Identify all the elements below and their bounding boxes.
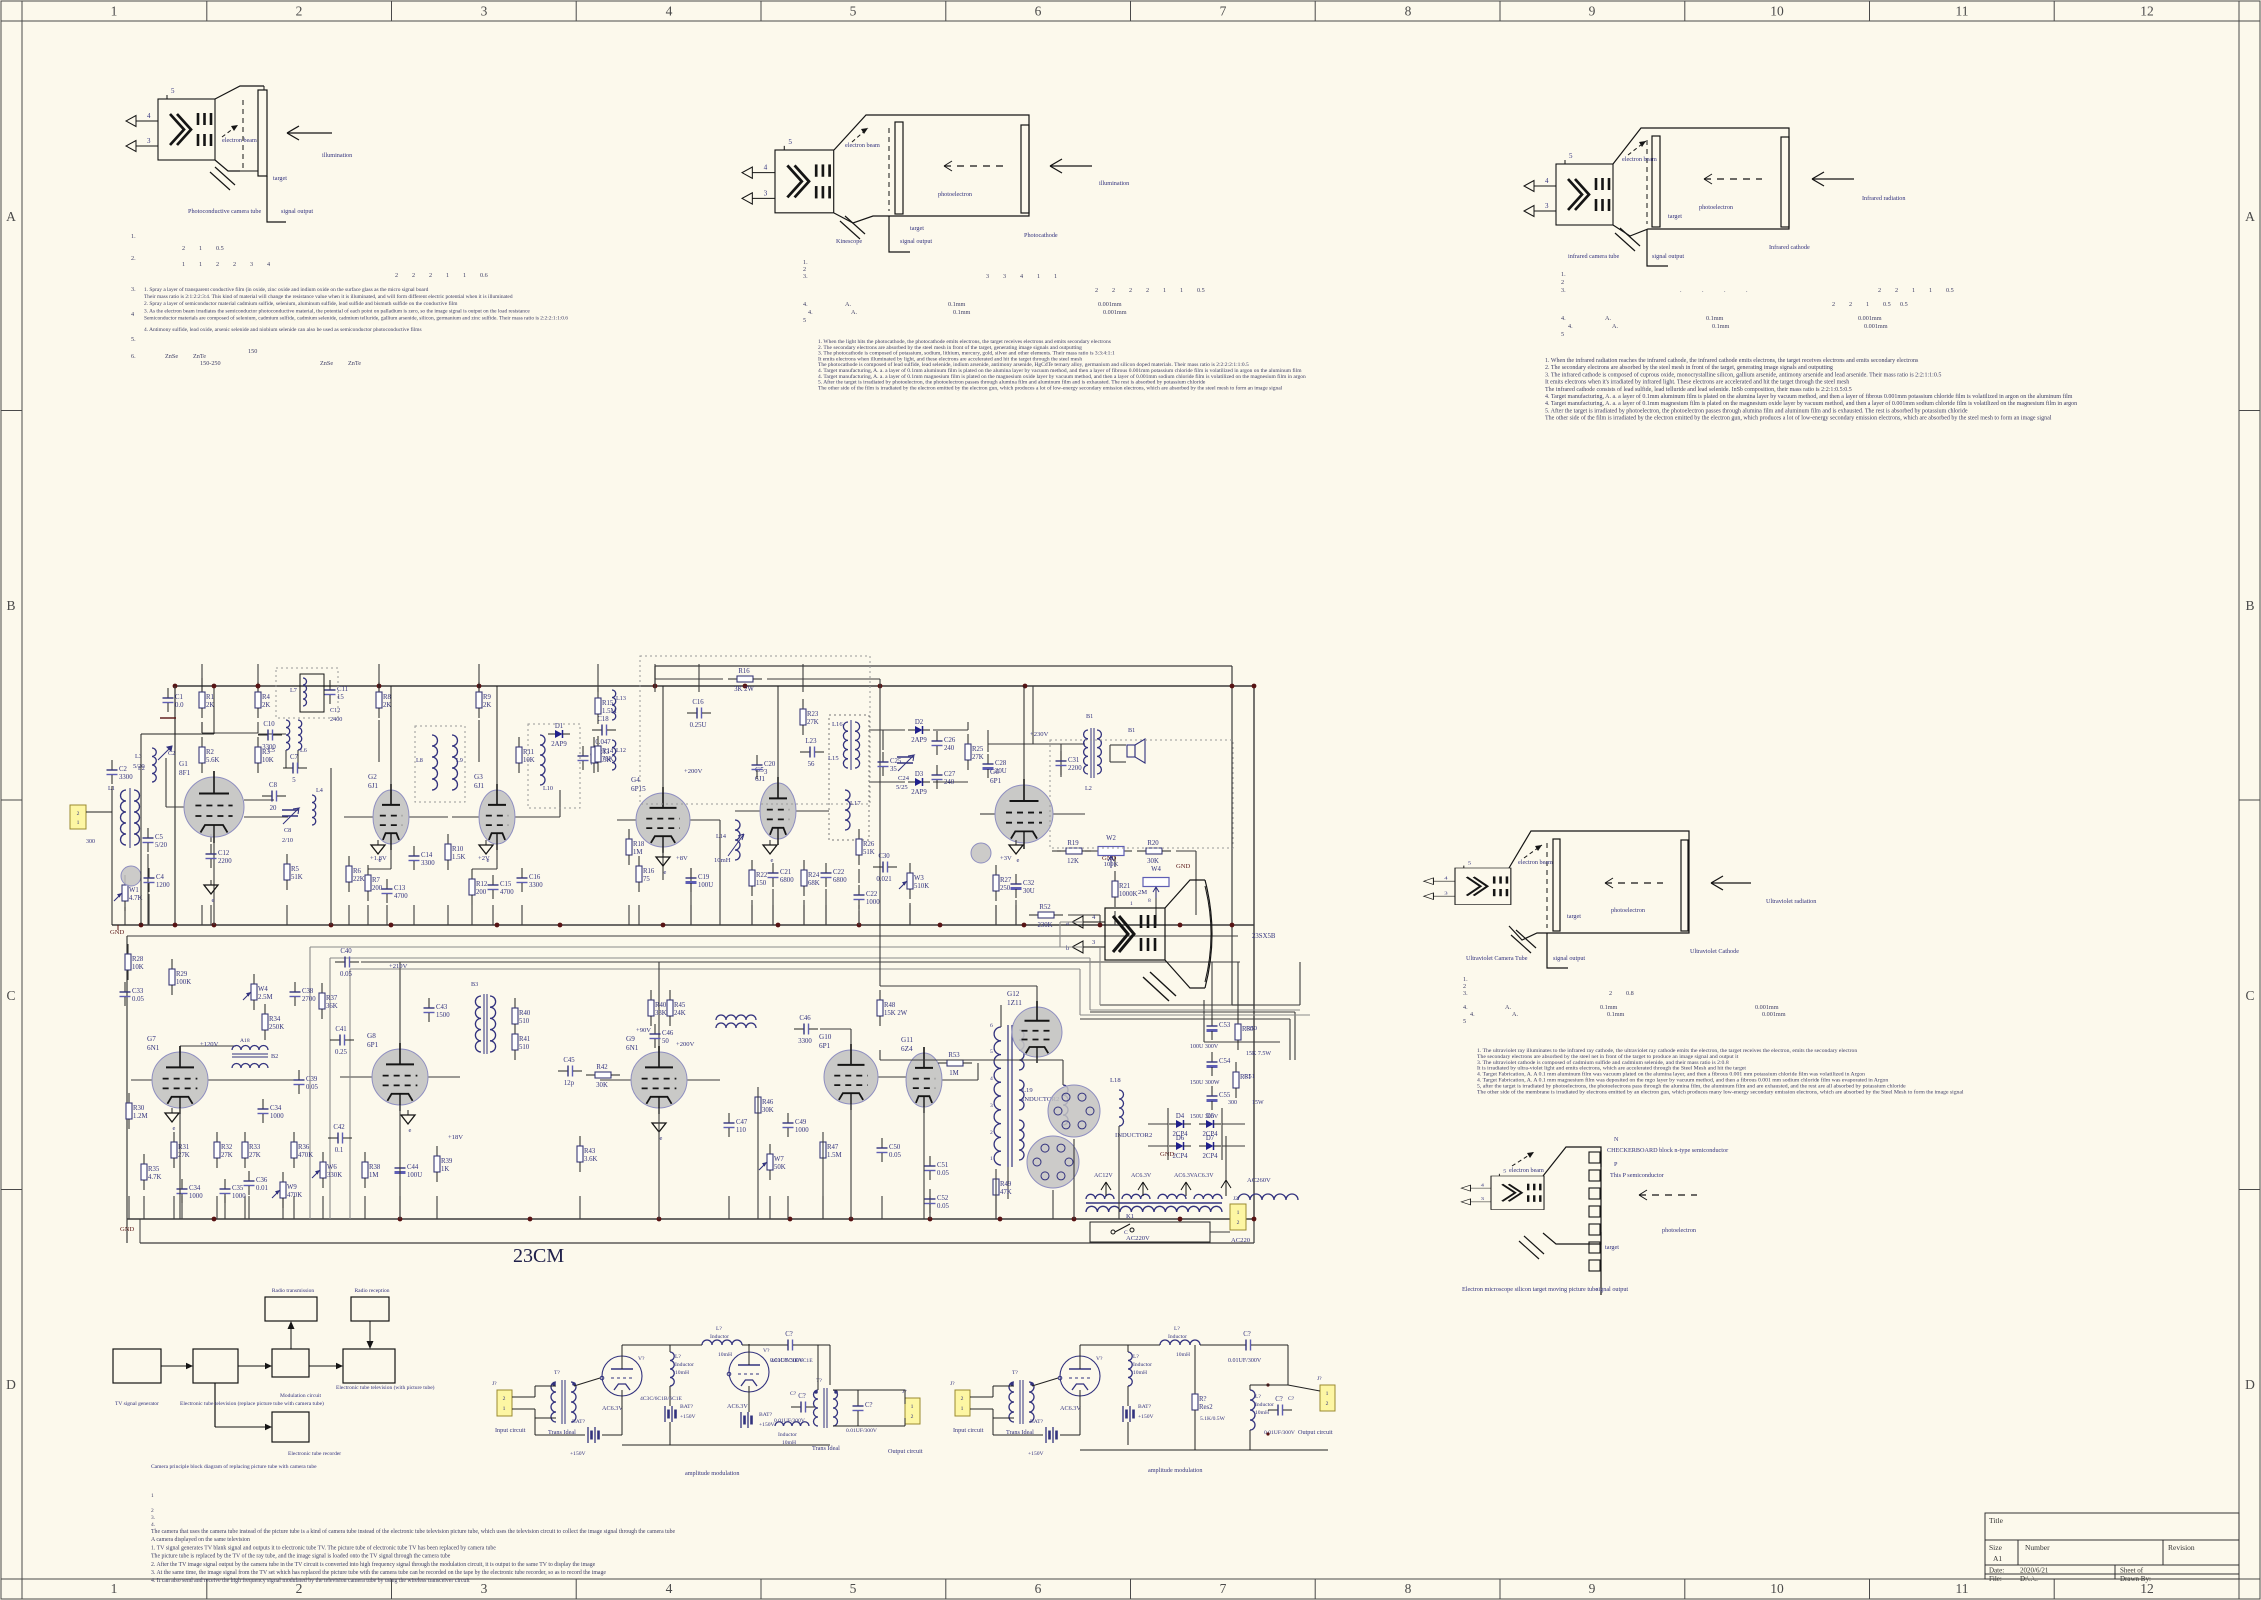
tube G9 [626,1035,687,1114]
arrow up to radio transmission [290,1328,292,1349]
svg-text:W4: W4 [1151,866,1161,873]
svg-text:V?: V? [763,1348,770,1354]
svg-text:Revision: Revision [2168,1543,2195,1552]
svg-text:TV signal generator: TV signal generator [115,1401,159,1407]
svg-text:2020/6/21: 2020/6/21 [2020,1567,2049,1575]
svg-text:R42: R42 [596,1064,608,1071]
svg-text:V?: V? [1096,1356,1103,1362]
svg-text:C47: C47 [736,1119,748,1126]
svg-text:R21: R21 [1119,883,1130,890]
svg-text:1: 1 [111,1581,118,1596]
svg-text:2M: 2M [1138,889,1147,896]
resistor R40 [648,990,667,1026]
svg-text:4.: 4. [1561,315,1566,322]
svg-text:10mH: 10mH [718,1352,732,1358]
svg-text:ZnTe: ZnTe [348,360,361,367]
svg-text:+150V: +150V [570,1451,586,1457]
svg-text:A.: A. [851,309,857,316]
svg-text:AC260V: AC260V [1247,1177,1271,1184]
svg-text:C14: C14 [421,852,433,859]
svg-text:150: 150 [248,348,257,355]
notes list 1 [131,233,568,367]
svg-text:e: e [212,897,215,904]
svg-text:27K: 27K [249,1152,261,1159]
capacitor C11 [325,680,349,704]
svg-text:Ultraviolet radiation: Ultraviolet radiation [1766,898,1816,905]
capacitor C39 [294,1070,319,1094]
svg-text:47K: 47K [1000,1189,1012,1196]
capacitor C26 [932,731,956,755]
ground G3 [479,840,493,864]
electron microscope silicon target tube diagram [1461,1136,1728,1295]
svg-text:4.: 4. [1463,1004,1468,1011]
svg-text:R18: R18 [633,841,645,848]
svg-text:10mH: 10mH [714,857,731,864]
svg-text:W2: W2 [1106,835,1116,842]
svg-text:3: 3 [481,1581,488,1596]
transformer L1/L2 [86,811,112,813]
svg-text:C30: C30 [878,853,890,860]
svg-text:0.1mm: 0.1mm [1607,1011,1625,1018]
inductor amL2B [1160,1340,1200,1345]
resistor R30 [126,1093,148,1129]
svg-text:2: 2 [1561,279,1564,286]
ground G4 [656,852,670,876]
svg-text:4.: 4. [151,1522,155,1528]
svg-text:3: 3 [764,769,768,776]
resistor pot [280,1172,302,1208]
resistor R4 [255,682,271,718]
svg-text:68K: 68K [808,880,820,887]
svg-text:2: 2 [182,245,185,252]
inductor amT1B [1009,1382,1014,1422]
svg-text:5: 5 [171,87,175,95]
tube envelope [215,86,264,99]
resistor R25 [965,734,984,770]
svg-text:0.5: 0.5 [1883,301,1891,308]
svg-text:200: 200 [372,885,383,892]
battery BAT2 A [665,1406,676,1422]
capacitor C43 [424,998,451,1022]
svg-text:1: 1 [1929,287,1932,294]
svg-text:0.5: 0.5 [1946,287,1954,294]
svg-text:R52: R52 [1039,904,1051,911]
svg-text:J2: J2 [1233,1196,1238,1202]
ground G7 [165,1108,179,1132]
svg-text:+2V: +2V [478,855,490,862]
svg-text:5: 5 [990,1049,993,1055]
amplitude modulation circuit A [492,1326,923,1477]
lower horizontal buses to CRT [127,935,1238,937]
svg-text:2CP4: 2CP4 [1172,1153,1188,1160]
inductor L5 [286,720,290,750]
svg-text:3: 3 [1481,1197,1485,1201]
svg-text:10mH: 10mH [1133,1370,1147,1376]
svg-text:0.1mm: 0.1mm [948,301,966,308]
svg-text:2: 2 [151,1508,154,1514]
svg-text:1000: 1000 [866,899,880,906]
svg-text:C4: C4 [156,874,165,881]
svg-text:R41: R41 [519,1036,530,1043]
svg-text:3. The infrared cathode is com: 3. The infrared cathode is composed of c… [1545,371,1941,378]
electron gun of photoconductive camera tube [126,87,215,160]
svg-text:R40: R40 [519,1010,531,1017]
svg-text:470K: 470K [287,1192,302,1199]
svg-text:4C3C/6C1B/6C1E: 4C3C/6C1B/6C1E [640,1396,683,1402]
svg-text:C27: C27 [944,771,956,778]
svg-text:L8: L8 [416,757,423,764]
svg-text:C11: C11 [337,686,348,693]
capacitor C45 [558,1057,582,1087]
svg-text:C8: C8 [284,827,291,834]
resistor R48 [877,990,908,1026]
svg-text:3: 3 [1545,202,1549,210]
svg-text:C16: C16 [529,874,541,881]
svg-text:4: 4 [131,311,134,318]
svg-text:2AP9: 2AP9 [551,741,567,748]
svg-text:510K: 510K [914,883,929,890]
svg-text:Electronic tube television (re: Electronic tube television (replace pict… [180,1400,324,1407]
svg-text:A: A [2245,209,2255,224]
svg-text:150U 300V: 150U 300V [1190,1114,1219,1120]
resistor R3 [255,737,274,773]
svg-text:1: 1 [1237,1210,1240,1216]
svg-text:2: 2 [1095,287,1098,294]
svg-text:L?: L? [1133,1354,1139,1360]
svg-text:1.2M: 1.2M [133,1113,148,1120]
svg-text:1500: 1500 [436,1012,450,1019]
capacitor C46 [650,1024,674,1048]
inductor amT3A [814,1390,818,1426]
svg-text:1M: 1M [949,1070,958,1077]
ground G8 [401,1110,415,1134]
svg-text:R22: R22 [756,872,768,879]
svg-text:0.8: 0.8 [1626,990,1634,997]
svg-text:15W: 15W [1252,1100,1264,1106]
svg-text:GND: GND [110,929,125,936]
svg-text:Radio reception: Radio reception [355,1288,390,1294]
svg-text:AC220V: AC220V [1126,1235,1150,1242]
svg-text:B: B [2245,598,2254,613]
capacitor C30 [873,853,897,883]
svg-text:G12: G12 [1007,990,1020,998]
svg-text:Inductor: Inductor [1133,1362,1152,1368]
inductor L3 [152,748,156,782]
tube socket S2 [1027,1136,1079,1188]
svg-text:0.001mm: 0.001mm [1103,309,1127,316]
svg-text:2: 2 [296,4,303,19]
tube socket S1 [1048,1085,1100,1137]
svg-text:e: e [771,857,774,864]
svg-text:4.: 4. [1470,1011,1475,1018]
illumination arrow [287,132,332,134]
svg-text:D7: D7 [1206,1135,1215,1142]
amplitude modulation circuit B [950,1326,1335,1474]
svg-text:6Z4: 6Z4 [901,1045,913,1053]
block etv picture [343,1349,395,1383]
svg-text:2: 2 [233,261,236,268]
svg-text:4700: 4700 [500,889,514,896]
svg-text:R1: R1 [206,694,214,701]
svg-text:4: 4 [1481,1184,1485,1188]
svg-text:R4: R4 [262,694,271,701]
svg-text:2.5M: 2.5M [258,994,273,1001]
svg-text:Photocathode: Photocathode [1024,232,1058,239]
inductor amL1B [1128,1352,1132,1386]
inductor amL1A [670,1352,674,1386]
diode D7 [1199,1135,1221,1160]
svg-text:G3: G3 [474,773,483,781]
svg-text:C31: C31 [1068,757,1079,764]
svg-text:W6: W6 [327,1164,337,1171]
svg-text:5: 5 [803,317,806,324]
GND bus [112,924,1254,926]
battery BAT1 A [588,1427,599,1443]
inductor L6 [298,720,302,750]
svg-text:L13: L13 [616,695,626,702]
svg-text:2: 2 [216,261,219,268]
svg-text:R26: R26 [863,841,875,848]
svg-text:photoelectron: photoelectron [1662,1227,1696,1234]
resistor amRB [1192,1384,1213,1420]
svg-text:20: 20 [270,805,277,812]
svg-text:D2: D2 [915,719,924,726]
svg-text:target: target [910,225,924,232]
svg-text:R43: R43 [584,1148,596,1155]
svg-text:2K: 2K [383,702,391,709]
svg-text:target: target [1567,913,1581,920]
svg-text:1000: 1000 [189,1193,203,1200]
svg-text:0.1mm: 0.1mm [953,309,971,316]
svg-text:AC12V: AC12V [1094,1173,1113,1179]
inductor L19c [1063,1085,1068,1125]
capacitor C49 [783,1113,810,1137]
svg-text:D:\..\..: D:\..\.. [2020,1575,2038,1583]
svg-text:CHECKERBOARD block n-type semi: CHECKERBOARD block n-type semiconductor [1607,1147,1728,1154]
svg-text:0.5: 0.5 [1900,301,1908,308]
inductor hw2 [1158,1194,1186,1199]
resistor R31 [171,1132,190,1168]
capacitor C5 [143,828,168,852]
capacitor L23 [800,738,824,768]
svg-text:R46: R46 [762,1099,774,1106]
wire top bus [175,685,1254,687]
svg-text:R35: R35 [148,1166,160,1173]
svg-text:The picture tube is replaced b: The picture tube is replaced by the TV o… [151,1553,451,1560]
svg-text:75: 75 [643,876,650,883]
svg-text:J?: J? [1317,1376,1322,1382]
svg-text:G9: G9 [626,1035,635,1043]
svg-text:R?: R? [1199,1396,1207,1403]
resistor R50 [1235,1014,1254,1050]
svg-text:ZnTe: ZnTe [193,353,206,360]
svg-text:Number: Number [2025,1543,2050,1552]
svg-text:0.1mm: 0.1mm [1712,323,1730,330]
svg-text:Title: Title [1989,1516,2004,1525]
svg-text:GND: GND [120,1226,135,1233]
svg-text:240: 240 [944,745,955,752]
svg-text:C2: C2 [119,766,128,773]
svg-text:0.25: 0.25 [335,1049,347,1056]
svg-text:2: 2 [911,1414,914,1420]
svg-text:L19: L19 [1022,1087,1033,1094]
svg-text:photoelectron: photoelectron [1699,204,1733,211]
inductor L4 [312,795,316,825]
svg-text:0.05: 0.05 [937,1170,949,1177]
tube G10 [819,1033,878,1110]
inductor L12 [612,740,616,770]
inductor L13 [612,690,616,720]
svg-text:L16: L16 [832,721,843,728]
svg-text:C26: C26 [944,737,956,744]
svg-text:+1.8V: +1.8V [370,855,387,862]
svg-text:Res2: Res2 [1199,1404,1213,1411]
svg-text:Trans Ideal: Trans Ideal [812,1445,840,1452]
svg-text:C49: C49 [795,1119,807,1126]
svg-text:C13: C13 [394,885,406,892]
svg-text:electron beam: electron beam [222,137,257,144]
svg-text:3.: 3. [803,273,808,280]
svg-text:4: 4 [764,164,768,172]
svg-text:B1: B1 [1086,713,1093,720]
lower row stages [120,944,695,1208]
svg-text:3: 3 [764,189,768,197]
svg-text:4: 4 [1545,177,1549,185]
svg-text:1: 1 [1912,287,1915,294]
svg-text:27K: 27K [972,754,984,761]
svg-text:3300: 3300 [119,774,133,781]
svg-text:C28: C28 [995,760,1007,767]
svg-text:R11: R11 [523,749,534,756]
svg-text:1000: 1000 [270,1113,284,1120]
GND symbol left [117,925,119,930]
connector J1 [70,805,86,829]
svg-text:0.01: 0.01 [256,1185,268,1192]
svg-text:1200: 1200 [156,882,170,889]
svg-text:10mH: 10mH [675,1370,689,1376]
svg-text:C54: C54 [1219,1058,1231,1065]
svg-text:G11: G11 [901,1036,914,1044]
tube V? B [1060,1356,1100,1396]
svg-text:R9: R9 [483,694,492,701]
svg-text:A18: A18 [240,1038,250,1044]
svg-text:C44: C44 [407,1164,419,1171]
svg-text:27K: 27K [221,1152,233,1159]
svg-text:Size: Size [1989,1543,2003,1552]
svg-text:23CM: 23CM [513,1245,564,1267]
svg-text:300: 300 [1228,1100,1237,1106]
svg-text:3300: 3300 [529,882,543,889]
svg-text:3.6K: 3.6K [584,1156,597,1163]
svg-text:6J1: 6J1 [474,782,484,790]
svg-text:3: 3 [990,1103,993,1109]
capacitor C36 [244,1171,268,1195]
svg-text:C35: C35 [232,1185,244,1192]
arrow down from radio reception [369,1321,371,1342]
svg-text:510: 510 [519,1044,530,1051]
svg-text:470K: 470K [298,1152,313,1159]
resistor R14 [595,736,614,772]
svg-text:G10: G10 [819,1033,832,1041]
svg-text:4: 4 [666,4,673,19]
capacitor C42 [328,1124,352,1154]
resistor R53 [938,1052,972,1077]
svg-text:C?: C? [798,1393,806,1400]
electron gun of kinescope [742,138,834,213]
svg-text:BAT?: BAT? [572,1419,586,1425]
svg-text:1: 1 [503,1406,506,1412]
svg-text:C21: C21 [780,869,791,876]
svg-text:1M: 1M [633,849,642,856]
inductor L17 [845,790,850,830]
svg-text:R39: R39 [441,1158,453,1165]
svg-text:W3: W3 [914,875,924,882]
svg-text:photoelectron: photoelectron [938,191,972,198]
svg-text:0.1: 0.1 [335,1147,344,1154]
svg-text:1.: 1. [1561,271,1566,278]
inductor amL2A [702,1340,742,1345]
svg-text:4.: 4. [1568,323,1573,330]
svg-text:1: 1 [77,820,80,826]
wire right vertical bus [1253,686,1255,1219]
svg-text:B3: B3 [471,981,478,988]
svg-text:0.6: 0.6 [480,272,488,279]
svg-text:L2: L2 [1085,785,1092,792]
inductor L2 [134,790,140,845]
svg-text:2200: 2200 [1068,765,1082,772]
svg-text:R12: R12 [476,881,488,888]
svg-text:L?: L? [1174,1326,1180,1332]
svg-text:amplitude modulation: amplitude modulation [1148,1467,1202,1474]
svg-text:10K: 10K [132,964,144,971]
svg-text:L?: L? [1255,1394,1261,1400]
svg-text:1: 1 [446,272,449,279]
capacitor C8 [262,782,286,812]
resistor R36 [291,1132,313,1168]
svg-text:J?: J? [950,1381,955,1387]
svg-text:C24: C24 [898,775,910,782]
svg-text:W7: W7 [774,1156,784,1163]
svg-text:Infrared cathode: Infrared cathode [1769,244,1810,251]
svg-text:5: 5 [850,4,857,19]
svg-text:4: 4 [147,112,151,120]
svg-text:30U: 30U [1023,888,1035,895]
connector output J B [1320,1385,1335,1411]
svg-text:9: 9 [1589,4,1596,19]
signal output wire [267,176,286,222]
capacitor C? [791,1393,815,1413]
svg-text:1000: 1000 [232,1193,246,1200]
inductor L7 [303,678,307,706]
svg-text:C45: C45 [563,1057,575,1064]
svg-text:infrared camera tube: infrared camera tube [1568,253,1619,260]
svg-text:C22: C22 [866,891,878,898]
svg-text:1.5K: 1.5K [452,854,465,861]
inductor B1l [1084,730,1088,774]
svg-text:6.: 6. [131,353,136,360]
svg-text:15K 2W: 15K 2W [884,1010,908,1017]
svg-text:33K: 33K [655,1010,667,1017]
svg-text:10mH: 10mH [1176,1352,1190,1358]
svg-text:It emits electrons when it's i: It emits electrons when it's irradiated … [1545,379,1849,386]
electron beam dashed pointer [222,125,238,137]
tube V2 A [729,1352,769,1392]
svg-text:Input circuit: Input circuit [495,1427,526,1434]
connector J2 [1230,1204,1246,1230]
svg-text:C53: C53 [1219,1022,1231,1029]
power wires [1000,1005,1002,1027]
ground G2 [371,840,385,864]
